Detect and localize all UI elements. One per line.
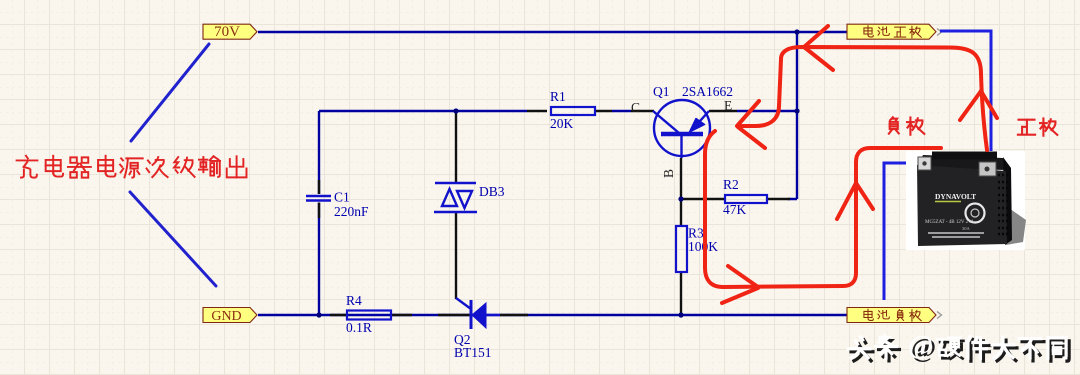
svg-text:GND: GND (211, 309, 241, 324)
svg-text:C: C (631, 100, 640, 115)
svg-text:@: @ (908, 330, 933, 360)
svg-text:R2: R2 (723, 177, 739, 192)
svg-text:B: B (661, 169, 676, 178)
svg-text:MG5ZAT - 4B 12V 2?A: MG5ZAT - 4B 12V 2?A (925, 220, 974, 225)
svg-text:47K: 47K (723, 202, 747, 217)
svg-text:E: E (724, 98, 732, 113)
svg-text:R4: R4 (346, 293, 362, 308)
svg-text:BT151: BT151 (454, 345, 492, 360)
svg-text:30A: 30A (962, 226, 971, 231)
svg-text:R1: R1 (550, 89, 566, 104)
svg-text:20K: 20K (550, 116, 574, 131)
svg-text:DYNAVOLT: DYNAVOLT (935, 192, 976, 201)
svg-text:C1: C1 (334, 190, 350, 205)
svg-text:Q1: Q1 (653, 84, 670, 99)
svg-text:0.1R: 0.1R (346, 320, 372, 335)
svg-text:70V: 70V (214, 24, 240, 40)
svg-text:DB3: DB3 (479, 184, 505, 199)
svg-text:2SA1662: 2SA1662 (682, 84, 733, 99)
svg-text:220nF: 220nF (334, 204, 369, 219)
